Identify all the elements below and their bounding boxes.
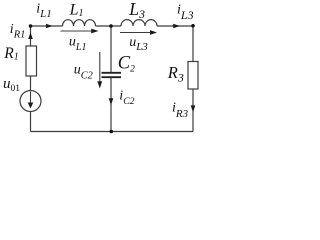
junction node C2 top [109, 24, 113, 28]
arrowhead voltage uL3 with line [150, 30, 157, 35]
svg-text:C2: C2 [118, 54, 135, 75]
junction node C2 bottom [110, 130, 114, 134]
svg-text:u01: u01 [3, 76, 20, 94]
voltage arrow line uC2 [99, 52, 101, 82]
arrowhead current iL1 [46, 24, 53, 29]
arrowhead current iL3 [173, 24, 180, 29]
svg-text:L1: L1 [69, 1, 84, 19]
arrowhead current iC2 [109, 98, 114, 105]
source arrow line u01 [30, 92, 32, 104]
svg-text:iR1: iR1 [10, 22, 26, 41]
svg-text:iR3: iR3 [172, 100, 189, 120]
wire right branch lower [192, 89, 194, 132]
resistor R3 [188, 62, 198, 90]
capacitor C2 plate top [102, 72, 122, 74]
wire middle branch lower [110, 78, 112, 132]
junction node top-right [191, 24, 195, 28]
svg-text:uC2: uC2 [74, 63, 93, 82]
svg-text:R3: R3 [167, 63, 184, 85]
wire bottom [31, 131, 194, 133]
voltage source u01 circle [20, 91, 41, 112]
svg-text:uL1: uL1 [69, 35, 87, 53]
arrowhead current iR3 [191, 105, 196, 112]
wire top-left segment [31, 25, 63, 27]
arrowhead voltage uC2 [97, 81, 102, 88]
svg-text:iL1: iL1 [36, 2, 52, 20]
wire top-middle segment [96, 25, 122, 27]
voltage arrow line uL1 [61, 30, 93, 32]
inductor L1 [63, 20, 96, 26]
svg-text:R1: R1 [3, 45, 18, 63]
junction node top-left [29, 24, 33, 28]
arrowhead voltage uL1 with line [91, 29, 98, 34]
wire left branch upper [30, 26, 32, 46]
voltage arrow line uL3 [120, 32, 151, 34]
arrowhead source u01 [28, 103, 34, 109]
wire top-right segment [157, 25, 193, 27]
capacitor C2 plate bottom [102, 76, 122, 78]
inductor L3 [121, 20, 157, 26]
arrowhead current iR1 [28, 33, 33, 40]
svg-text:uL3: uL3 [129, 35, 148, 53]
wire left branch lower [30, 112, 32, 132]
wire left branch middle [30, 76, 32, 91]
wire right branch upper [192, 26, 194, 62]
wire middle branch upper [110, 26, 112, 72]
svg-text:iL3: iL3 [177, 3, 194, 23]
svg-text:iC2: iC2 [119, 88, 134, 107]
svg-text:L3: L3 [128, 0, 145, 21]
resistor R1 [26, 46, 37, 76]
